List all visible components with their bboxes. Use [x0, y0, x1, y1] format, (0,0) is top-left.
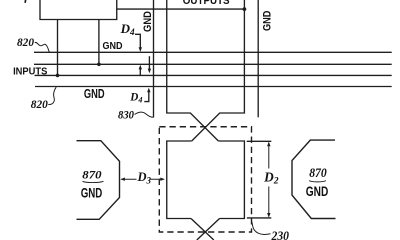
dashed region 230: [159, 127, 251, 232]
dim D3 line and arrows: [122, 178, 164, 180]
wire leg from box to input line 2: [57, 20, 59, 76]
svg-text:INPUTS: INPUTS: [13, 66, 48, 77]
leader for 830: [135, 112, 154, 117]
dim D4 bottom: down arrow to input line 2: [148, 56, 150, 70]
svg-text:D3: D3: [137, 170, 152, 185]
svg-text:830: 830: [118, 109, 134, 122]
label 810 tick: [24, 0, 27, 2]
leader for 820 top: [35, 42, 50, 52]
svg-text:GND: GND: [103, 41, 123, 52]
dim D2 extension top: [247, 140, 272, 142]
dim D4 bottom: elbow and up arrow to GND trace 2: [144, 91, 149, 102]
svg-text:D4: D4: [120, 21, 135, 37]
svg-text:GND: GND: [81, 185, 103, 200]
svg-text:GND: GND: [142, 11, 154, 32]
dim D4 top: up arrow to input line 1: [139, 68, 141, 76]
svg-text:GND: GND: [262, 10, 274, 31]
signal pad (inside 230): [167, 141, 245, 219]
leader for 230: [251, 221, 270, 235]
svg-text:230: 230: [271, 229, 290, 240]
dim D4 top: elbow and down arrow to GND trace 1: [135, 34, 140, 48]
svg-text:D4: D4: [129, 92, 142, 105]
svg-text:OUTPUTS: OUTPUTS: [183, 0, 230, 7]
svg-text:GND: GND: [306, 184, 329, 199]
bus input line 2: [35, 74, 392, 76]
svg-text:D2: D2: [263, 169, 279, 186]
leader for 820 bottom: [48, 87, 56, 104]
left GND pad 870: [77, 141, 120, 220]
underline for 870 left: [83, 181, 104, 182]
node junction dot: [243, 7, 247, 11]
bus input line 1: [34, 63, 392, 65]
GND line 830 (left vertical): [153, 0, 155, 118]
wire A (left output to pad right corner): [167, 0, 219, 141]
svg-text:GND: GND: [84, 87, 105, 101]
svg-text:820: 820: [31, 98, 48, 111]
wire from box to output wire B: [117, 8, 245, 10]
driver box 810: [40, 0, 117, 20]
wire B (right output to pad left corner): [192, 0, 245, 141]
dim D2 line and arrows: [268, 143, 270, 216]
bus GND trace 1: [34, 51, 392, 53]
bus GND trace 2: [35, 86, 392, 88]
underline for 870 right: [309, 181, 326, 182]
GND line (right vertical): [257, 0, 259, 117]
bottom crossing wires to lower pads: [191, 219, 220, 240]
wire leg from box to input line 1: [98, 20, 100, 65]
svg-text:870: 870: [309, 166, 327, 180]
node junction dot: [97, 63, 101, 67]
dim D2 extension bottom: [247, 217, 271, 219]
node junction dot: [56, 74, 60, 78]
svg-text:820: 820: [17, 36, 34, 49]
svg-text:870: 870: [82, 167, 101, 181]
right GND pad 870: [292, 140, 336, 218]
